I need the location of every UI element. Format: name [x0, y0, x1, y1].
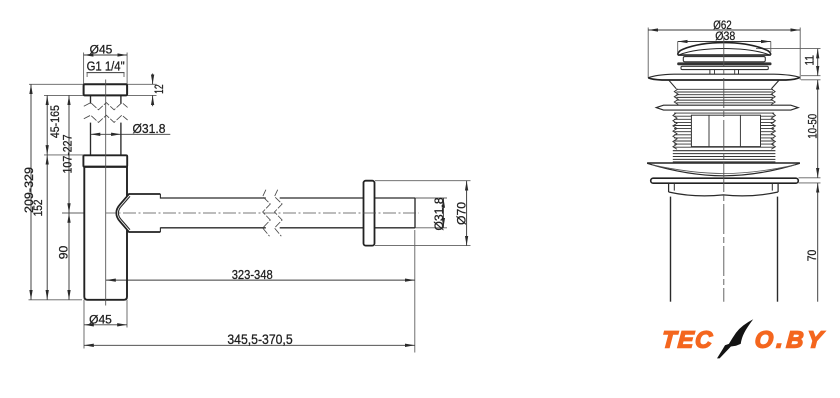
svg-text:Ø45: Ø45 — [90, 42, 113, 56]
svg-text:TEC: TEC — [661, 326, 715, 352]
svg-text:Ø70: Ø70 — [455, 202, 469, 225]
svg-text:Ø31.8: Ø31.8 — [133, 121, 166, 136]
svg-text:345,5-370,5: 345,5-370,5 — [227, 332, 293, 347]
svg-text:G1 1/4": G1 1/4" — [87, 60, 125, 74]
svg-text:11: 11 — [803, 55, 817, 66]
svg-text:Ø38: Ø38 — [715, 29, 735, 43]
svg-text:10-50: 10-50 — [805, 114, 819, 139]
svg-text:70: 70 — [805, 250, 819, 262]
svg-text:90: 90 — [57, 246, 71, 260]
svg-text:45-165: 45-165 — [48, 105, 62, 138]
svg-text:323-348: 323-348 — [232, 267, 273, 282]
svg-text:152: 152 — [31, 199, 45, 216]
svg-text:107-227: 107-227 — [60, 134, 74, 173]
svg-text:Ø31.8: Ø31.8 — [432, 197, 446, 230]
svg-text:12: 12 — [152, 84, 166, 94]
svg-text:Ø45: Ø45 — [89, 312, 112, 326]
svg-text:O.BY: O.BY — [754, 326, 827, 352]
